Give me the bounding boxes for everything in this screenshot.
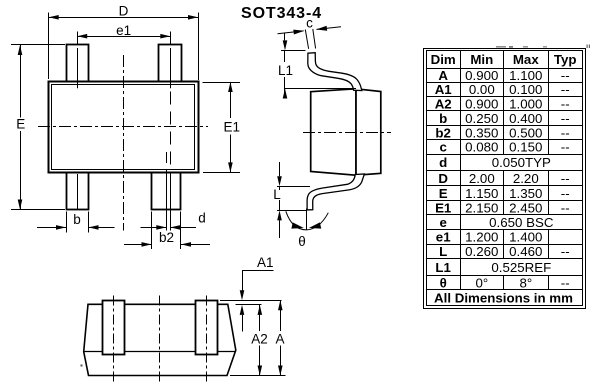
svg-text:All Dimensions in mm: All Dimensions in mm <box>434 291 573 306</box>
svg-text:0°: 0° <box>475 275 488 290</box>
svg-text:0.250: 0.250 <box>465 111 498 126</box>
svg-text:e: e <box>439 215 446 230</box>
svg-text:0.900: 0.900 <box>465 97 498 112</box>
svg-text:c: c <box>439 140 446 155</box>
svg-text:--: -- <box>561 82 570 97</box>
svg-text:b: b <box>73 212 81 227</box>
svg-text:1.400: 1.400 <box>509 229 542 244</box>
svg-text:--: -- <box>561 275 570 290</box>
svg-text:0.100: 0.100 <box>509 82 542 97</box>
svg-text:0.080: 0.080 <box>465 140 498 155</box>
svg-text:d: d <box>198 211 206 226</box>
svg-text:1.100: 1.100 <box>509 68 542 83</box>
svg-text:0.150: 0.150 <box>509 140 542 155</box>
svg-text:0.900: 0.900 <box>465 68 498 83</box>
svg-text:2.150: 2.150 <box>465 201 498 216</box>
svg-text:0.00: 0.00 <box>469 82 495 97</box>
svg-text:0.650 BSC: 0.650 BSC <box>489 215 554 230</box>
svg-text:8°: 8° <box>519 275 532 290</box>
svg-text:0.050TYP: 0.050TYP <box>492 155 551 170</box>
svg-text:1.350: 1.350 <box>509 186 542 201</box>
svg-text:L1: L1 <box>435 260 451 275</box>
svg-text:Typ: Typ <box>554 52 577 67</box>
svg-text:D: D <box>119 3 129 18</box>
svg-text:L1: L1 <box>278 63 293 78</box>
svg-text:e1: e1 <box>436 229 451 244</box>
svg-text:Min: Min <box>470 52 493 67</box>
svg-text:0.460: 0.460 <box>509 244 542 259</box>
svg-text:A1: A1 <box>257 255 274 270</box>
svg-text:Max: Max <box>513 52 539 67</box>
svg-text:--: -- <box>561 68 570 83</box>
svg-text:E: E <box>439 186 448 201</box>
svg-text:0.260: 0.260 <box>465 244 498 259</box>
svg-text:D: D <box>438 171 448 186</box>
svg-text:2.20: 2.20 <box>513 171 539 186</box>
svg-text:0.500: 0.500 <box>509 125 542 140</box>
svg-text:0.400: 0.400 <box>509 111 542 126</box>
svg-text:--: -- <box>561 111 570 126</box>
svg-text:A2: A2 <box>435 97 452 112</box>
svg-text:A: A <box>275 332 284 347</box>
svg-text:2.450: 2.450 <box>509 201 542 216</box>
svg-text:--: -- <box>561 171 570 186</box>
svg-text:1.000: 1.000 <box>509 97 542 112</box>
svg-text:d: d <box>439 155 447 170</box>
svg-text:A1: A1 <box>435 82 453 97</box>
svg-text:E1: E1 <box>224 120 241 135</box>
svg-text:--: -- <box>561 140 570 155</box>
svg-text:θ: θ <box>298 234 306 249</box>
svg-text:E: E <box>16 117 25 132</box>
svg-text:2.00: 2.00 <box>469 171 495 186</box>
svg-text:A2: A2 <box>251 332 268 347</box>
svg-text:--: -- <box>561 244 570 259</box>
svg-text:L: L <box>439 244 447 259</box>
svg-text:b2: b2 <box>159 230 174 245</box>
svg-text:0.525REF: 0.525REF <box>491 260 551 275</box>
svg-text:--: -- <box>561 201 570 216</box>
svg-text:--: -- <box>561 125 570 140</box>
svg-text:1.150: 1.150 <box>465 186 498 201</box>
svg-text:1.200: 1.200 <box>465 229 498 244</box>
svg-text:--: -- <box>561 97 570 112</box>
svg-text:0.350: 0.350 <box>465 125 498 140</box>
svg-text:θ: θ <box>440 275 447 290</box>
svg-text:e1: e1 <box>116 23 131 38</box>
svg-text:L: L <box>273 187 281 202</box>
svg-text:E1: E1 <box>435 201 452 216</box>
svg-text:b2: b2 <box>435 125 451 140</box>
svg-text:Dim: Dim <box>431 52 456 67</box>
svg-text:A: A <box>438 68 448 83</box>
svg-text:--: -- <box>561 186 570 201</box>
svg-text:b: b <box>439 111 447 126</box>
